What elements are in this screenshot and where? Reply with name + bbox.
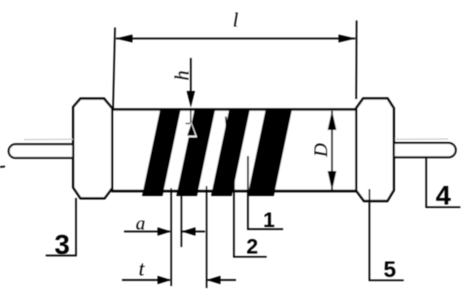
svg-text:4: 4 (436, 180, 451, 210)
dimension D: up arrowhead (328, 110, 337, 130)
svg-text:1: 1 (263, 209, 275, 232)
dimension h: down arrowhead (187, 91, 195, 108)
callout 2 leader upper tick (226, 117, 227, 130)
dimension a: left-pointing arrowhead (182, 227, 196, 235)
callout 2 leader line (234, 140, 267, 257)
body bottom line redrawn over band overshoot (112, 190, 356, 192)
dimension l: left extension line (113, 28, 115, 111)
dimension a: left segment (124, 231, 170, 233)
scan echo above right lead (395, 138, 448, 140)
svg-text:a: a (136, 214, 146, 235)
callout 5 leader line (369, 189, 403, 280)
dimension h: lower tick line (186, 123, 198, 125)
dimension t: right segment (207, 279, 236, 281)
dimension l: dimension line (116, 38, 355, 40)
colour band 2 (176, 110, 215, 196)
svg-text:5: 5 (384, 257, 397, 282)
dimension h: vertical leader line (190, 58, 192, 104)
colour band 4 (wide tolerance band) (248, 110, 292, 196)
colour band 3 (211, 110, 250, 196)
dimension t: extension line C (206, 186, 208, 288)
colour band 1 (142, 110, 181, 196)
svg-text:2: 2 (246, 235, 258, 258)
right end cap (356, 98, 394, 201)
dimension a: right-pointing arrowhead (158, 227, 172, 235)
svg-text:h: h (171, 71, 193, 81)
svg-text:3: 3 (55, 229, 70, 260)
dimension t: left-pointing arrowhead (207, 276, 221, 284)
stray scan mark at left margin (0, 166, 5, 169)
left end cap (73, 99, 112, 199)
dimension h: line continuation below body edge (190, 111, 192, 124)
dimension l: left arrowhead (115, 35, 132, 43)
resistor body (112, 110, 356, 192)
dimension t: right-pointing arrowhead (158, 276, 172, 284)
dimension a: right segment (182, 231, 205, 233)
callout 1 leader line (248, 156, 283, 229)
left lead wire (9, 144, 74, 158)
scan echo above left lead (24, 138, 73, 140)
dimension D: down arrowhead (328, 171, 337, 191)
callout 4 leader line (426, 157, 460, 207)
dimension l: right arrowhead (339, 35, 356, 43)
dimension a: extension line B (180, 188, 182, 247)
dimension h: up arrowhead (186, 122, 198, 138)
dimension D: dimension line (331, 111, 333, 190)
svg-text:t: t (139, 257, 146, 281)
svg-text:D: D (311, 143, 332, 158)
dimension a: extension line A (170, 188, 172, 286)
right lead wire (394, 143, 456, 157)
dimension t: left segment (122, 279, 170, 281)
dimension l: right extension line (355, 21, 357, 100)
svg-text:l: l (233, 10, 239, 32)
callout 3 leader line (46, 198, 76, 256)
